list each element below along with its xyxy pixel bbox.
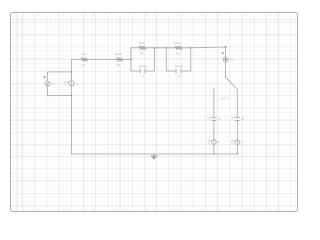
resistor R4 — [174, 41, 182, 55]
wire: top rail between tanks — [155, 47, 167, 49]
wire: right branch mid segment — [236, 121, 238, 140]
svg-text:1 µF: 1 µF — [231, 117, 236, 120]
wire: left block top rail — [48, 71, 72, 73]
wire: main rail segment into R1 — [71, 58, 81, 60]
svg-text:R4: R4 — [176, 51, 180, 55]
wire: tank2 bottom edge left stub — [166, 70, 176, 72]
svg-text:1 µF: 1 µF — [207, 117, 212, 120]
wire: tank1 left edge — [130, 48, 132, 71]
wire: left block drop to ground rail — [70, 96, 72, 154]
svg-text:100 µF: 100 µF — [139, 64, 148, 68]
current source I3 — [231, 140, 244, 146]
node I: right branch meets ground rail — [237, 153, 238, 154]
wire: tank1 right edge — [154, 48, 156, 71]
capacitor C1 — [139, 64, 148, 79]
wire: tank1 top edge left stub — [131, 47, 139, 49]
capacitor C3 — [207, 117, 221, 121]
svg-text:C3: C3 — [218, 118, 222, 121]
wire: right branch upper segment — [236, 89, 238, 117]
svg-text:100 µF: 100 µF — [175, 64, 184, 68]
svg-text:A: A — [65, 84, 67, 87]
node C: main rail joins RC tank 1 — [130, 59, 132, 61]
wire: left block bottom rail — [48, 95, 72, 97]
svg-text:V1: V1 — [52, 82, 56, 86]
wire: tank2 right edge — [190, 48, 192, 71]
svg-text:C2: C2 — [177, 75, 181, 79]
svg-text:10 kΩ: 10 kΩ — [115, 52, 122, 56]
current source I1 — [64, 72, 79, 96]
current source I2 — [207, 140, 220, 146]
wire: tank1 bottom edge left stub — [131, 70, 140, 72]
svg-text:I1: I1 — [76, 81, 79, 85]
probe dot (red) at voltmeter — [43, 76, 45, 78]
annotation squiggle near branches — [220, 98, 230, 100]
resistor R2 — [115, 52, 123, 67]
capacitor C4 — [231, 117, 245, 121]
wire: top rail to ammeter branch — [191, 46, 226, 49]
svg-text:I2: I2 — [218, 141, 221, 144]
svg-text:1 kΩ: 1 kΩ — [139, 41, 144, 45]
node H: left stub meets ground rail — [213, 153, 214, 154]
node G: ammeter branch top — [225, 46, 227, 48]
node E: top rail joins tank2 — [166, 47, 168, 49]
wire: main rail R1 to R2 — [87, 58, 116, 60]
wire: bottom ground rail — [71, 153, 237, 155]
voltmeter V1 — [45, 72, 55, 96]
wire: tank2 bottom edge right stub — [181, 70, 191, 72]
wire: left stub branch lower segment — [213, 144, 215, 154]
ammeter AM1 — [223, 47, 234, 77]
ground — [151, 154, 157, 160]
capacitor C2 — [175, 64, 184, 79]
wire: main rail R2 to node — [123, 58, 131, 60]
svg-text:R1: R1 — [82, 63, 86, 67]
svg-text:R3: R3 — [140, 51, 144, 55]
node D: tank1 to tank2 top-left junction — [154, 47, 156, 49]
wire: tank2 top edge left stub — [166, 47, 175, 49]
wire: tank2 top edge right stub — [182, 47, 191, 49]
svg-text:10 kΩ: 10 kΩ — [174, 41, 181, 45]
svg-text:1 kΩ: 1 kΩ — [81, 52, 86, 56]
svg-text:A: A — [208, 142, 210, 145]
wire: left stub branch upper segment — [213, 88, 215, 117]
probe dot (red) at ammeter — [222, 52, 224, 54]
svg-text:R2: R2 — [117, 63, 121, 67]
wire: left stub branch mid segment — [213, 121, 215, 140]
wire: right branch lower segment — [236, 145, 238, 155]
svg-text:A1: A1 — [230, 57, 234, 61]
svg-text:I3: I3 — [241, 141, 244, 144]
wire: riser from left block to main rail — [70, 59, 72, 72]
wire: tank1 bottom edge right stub — [145, 70, 154, 72]
resistor R1 — [81, 52, 88, 67]
wire: diagonal from ammeter to right branch — [226, 77, 238, 89]
svg-text:C1: C1 — [141, 75, 145, 79]
wire: tank2 left edge — [165, 48, 167, 71]
node A: junction of I1 branch and top rail — [71, 71, 73, 73]
resistor R3 — [139, 41, 146, 55]
svg-text:A: A — [231, 142, 233, 145]
node F: tank2 top-right corner — [190, 47, 192, 49]
svg-text:C4: C4 — [241, 118, 245, 121]
wire: tank1 top edge right stub — [146, 47, 155, 49]
node B: junction of I1 branch and bottom rail — [71, 95, 73, 97]
